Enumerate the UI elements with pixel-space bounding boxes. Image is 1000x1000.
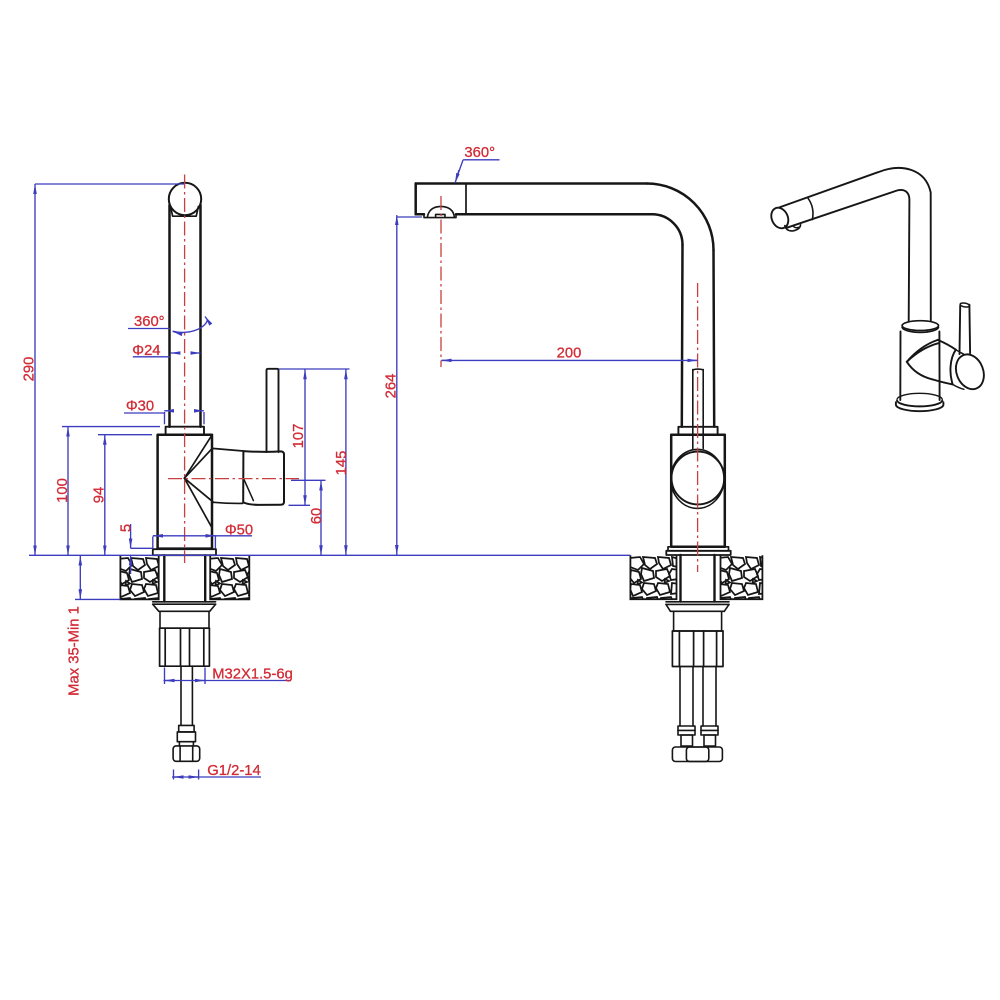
svg-text:60: 60: [309, 508, 325, 524]
svg-text:100: 100: [55, 478, 71, 503]
svg-text:Φ24: Φ24: [132, 343, 160, 359]
svg-text:360°: 360°: [464, 145, 495, 161]
svg-text:360°: 360°: [134, 314, 165, 330]
svg-text:5: 5: [118, 524, 134, 532]
svg-text:290: 290: [21, 357, 37, 382]
svg-text:94: 94: [92, 487, 108, 503]
svg-text:M32X1.5-6g: M32X1.5-6g: [212, 667, 293, 683]
svg-text:Φ30: Φ30: [126, 399, 154, 415]
svg-text:Φ50: Φ50: [225, 522, 253, 538]
svg-text:264: 264: [384, 374, 400, 399]
svg-text:Max 35-Min 1: Max 35-Min 1: [67, 606, 83, 696]
svg-text:G1/2-14: G1/2-14: [207, 763, 260, 779]
svg-text:145: 145: [334, 451, 350, 476]
svg-text:200: 200: [557, 345, 582, 361]
svg-text:107: 107: [291, 424, 307, 449]
